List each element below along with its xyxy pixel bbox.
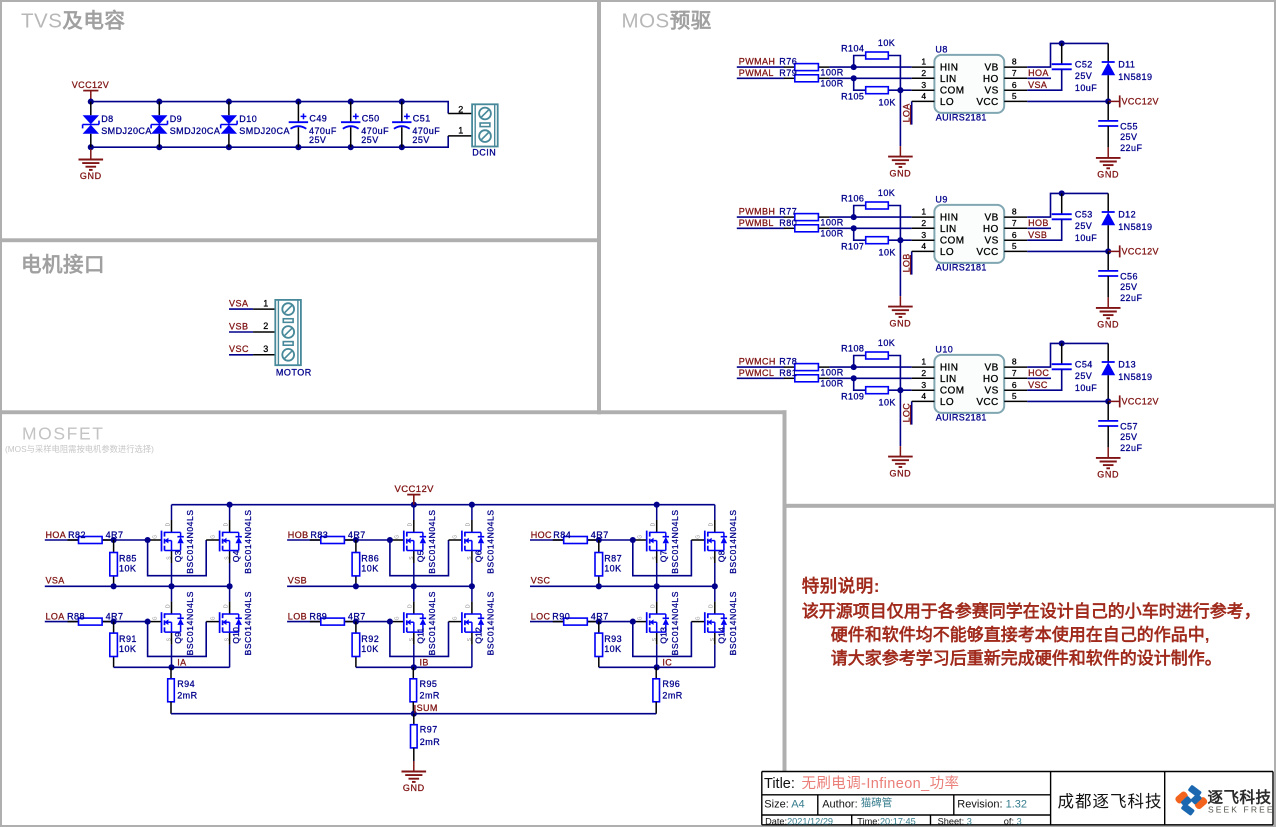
svg-text:HOC: HOC [1028,368,1049,378]
svg-text:10K: 10K [604,564,621,574]
svg-text:U8: U8 [935,45,947,55]
wire gate link high side [148,540,207,576]
wire VB to bootstrap [1027,343,1108,367]
svg-text:GND: GND [889,468,911,478]
resistor R81 100R [779,368,843,389]
svg-text:D: D [709,522,715,526]
svg-text:R96: R96 [662,679,680,689]
svg-text:8: 8 [1012,57,1017,67]
svg-text:10K: 10K [119,564,136,574]
wire bottom bus GND [91,136,448,147]
diode D12 1N5819 [1101,193,1152,251]
pin 8 VB [985,57,1028,74]
svg-text:Revision: 1.32: Revision: 1.32 [957,798,1027,810]
svg-text:R109: R109 [841,391,864,401]
resistor R78 100R [779,357,843,378]
section divider vertical between left column and MOS predriver box [597,2,601,414]
junction [88,99,94,105]
svg-text:GND: GND [1097,170,1119,180]
wire gate link low side [633,622,692,657]
svg-text:1N5819: 1N5819 [1118,222,1152,232]
svg-text:SMDJ20CA: SMDJ20CA [170,126,221,136]
svg-text:G: G [453,535,459,539]
svg-text:LOB: LOB [288,611,307,621]
svg-text:5: 5 [1012,91,1017,101]
wire IC rail [599,666,715,668]
wire COM to ground [899,390,901,446]
svg-text:COM: COM [940,236,965,247]
net label HOB [1027,218,1051,228]
svg-text:R105: R105 [841,91,864,101]
svg-text:2mR: 2mR [420,737,440,747]
net label LOC [901,403,911,425]
svg-text:Q6: Q6 [474,550,484,562]
svg-text:HIN: HIN [940,63,958,74]
svg-text:VCC: VCC [976,397,998,408]
resistor R83 4R7 [310,530,366,543]
section divider horizontal top of MOSFET box [2,410,787,414]
ground [1096,147,1121,179]
junction [1059,190,1065,196]
resistor R80 100R [779,218,843,239]
svg-text:2mR: 2mR [662,690,682,700]
pin 2 LIN [912,368,957,385]
pin 4 LO [912,241,954,258]
junction [145,619,151,625]
wire R104 pulldown [854,56,866,68]
power port VCC12V [395,484,435,505]
svg-text:D: D [466,522,472,526]
wire R109 pulldown [854,378,866,390]
wire IA rail [114,666,230,668]
diode D13 1N5819 [1101,343,1152,401]
svg-text:HOB: HOB [288,530,309,540]
transistor Q14 BSC014N04LS [696,586,739,667]
svg-text:GND: GND [889,318,911,328]
svg-text:R107: R107 [841,241,864,251]
power port VCC12V [1108,395,1159,407]
svg-text:GND: GND [403,783,425,793]
svg-text:HIN: HIN [940,363,958,374]
junction [111,583,117,589]
transistor Q7 BSC014N04LS [638,505,681,587]
pin 7 HO [983,68,1027,85]
svg-text:猫碑管: 猫碑管 [861,796,893,809]
wire to ground [1107,426,1109,447]
diode D11 1N5819 [1101,43,1152,101]
junction [353,583,359,589]
transistor Q9 BSC014N04LS [152,586,195,667]
ground [79,147,104,181]
junction [353,619,359,625]
svg-text:100R: 100R [820,79,843,89]
svg-text:25V: 25V [1120,132,1137,142]
svg-text:G: G [210,535,216,539]
svg-text:HOA: HOA [1028,68,1049,78]
junction [348,99,354,105]
wire LOB gate drive [287,621,390,623]
svg-text:VCC12V: VCC12V [1122,397,1159,407]
resistor R106 10K [841,188,895,209]
op-amp U8 AUIRS2181 gate driver [912,45,1028,123]
svg-text:G: G [395,535,401,539]
svg-text:10K: 10K [361,564,378,574]
svg-text:R84: R84 [553,530,571,540]
transistor Q12 BSC014N04LS [453,586,496,667]
seekfree logo [1174,785,1275,816]
svg-text:R89: R89 [309,611,327,621]
wire HOA gate drive [45,539,148,541]
junction [654,502,660,508]
svg-text:VSA: VSA [1028,80,1047,90]
svg-text:4: 4 [921,91,926,101]
junction [226,99,232,105]
ground [888,446,913,478]
pin 4 LO [912,91,954,108]
svg-text:COM: COM [940,386,965,397]
capacitor C51 470uF 25V [392,102,440,148]
svg-text:VSA: VSA [229,299,249,309]
wire LO to LOA [911,101,913,124]
resistor R104 10K [841,38,895,59]
svg-text:VCC12V: VCC12V [72,80,109,90]
svg-text:GND: GND [1097,320,1119,330]
wire top bus VCC12V [91,102,448,114]
net label LOA [901,103,911,124]
svg-text:10K: 10K [361,644,378,654]
svg-text:100R: 100R [820,379,843,389]
svg-text:BSC014N04LS: BSC014N04LS [728,509,738,573]
transistor Q5 BSC014N04LS [395,505,438,587]
svg-text:D: D [223,522,229,526]
ground [1096,447,1121,479]
svg-text:1: 1 [921,207,926,217]
junction [654,583,660,589]
resistor R82 4R7 [68,530,124,543]
svg-text:C50: C50 [362,114,380,124]
op-amp U9 AUIRS2181 gate driver [912,195,1028,273]
wire R106 pulldown [854,206,866,218]
svg-text:10K: 10K [879,398,896,408]
power port VCC12V [1108,245,1159,257]
junction [469,502,475,508]
date row [765,816,1022,826]
svg-text:Q9: Q9 [173,632,183,644]
svg-text:HO: HO [983,374,999,385]
svg-text:R104: R104 [841,44,864,54]
wire gate link low side [148,622,207,657]
svg-text:HOC: HOC [531,530,552,540]
capacitor C52 bootstrap [1052,43,1098,93]
svg-text:G: G [696,616,702,620]
svg-text:VS: VS [985,86,999,97]
svg-text:25V: 25V [1075,221,1092,231]
junction [387,537,393,543]
wire VCC12V top bus [172,504,715,506]
svg-text:HIN: HIN [940,213,958,224]
junction [712,583,718,589]
svg-text:COM: COM [940,86,965,97]
svg-text:HOA: HOA [46,530,67,540]
svg-text:1N5819: 1N5819 [1118,372,1152,382]
junction [168,583,174,589]
svg-text:R94: R94 [177,679,195,689]
junction [348,144,354,150]
wire VCC [1027,400,1108,402]
svg-text:PWMAH: PWMAH [739,57,776,67]
svg-text:LIN: LIN [940,374,957,385]
resistor R108 10K [841,338,895,359]
junction [411,711,417,717]
svg-text:R79: R79 [779,68,797,78]
junction [469,583,475,589]
svg-text:10uF: 10uF [1075,83,1097,93]
resistor R94 2mR shunt [168,667,198,713]
pin 6 VS [985,80,1028,97]
svg-text:IA: IA [177,658,186,668]
svg-text:LOA: LOA [46,611,65,621]
svg-text:VSB: VSB [229,321,249,331]
junction [145,537,151,543]
svg-text:Q14: Q14 [716,627,726,644]
svg-text:100R: 100R [820,68,843,78]
wire LO to LOC [911,401,913,424]
svg-text:PWMCH: PWMCH [739,357,776,367]
wire gate link high side [633,540,692,576]
svg-text:VCC: VCC [976,247,998,258]
resistor R90 4R7 [552,611,608,625]
svg-text:C56: C56 [1120,271,1138,281]
svg-text:电机接口: 电机接口 [21,253,105,277]
svg-text:VSC: VSC [531,575,551,585]
pin 8 VB [985,207,1028,224]
svg-text:R93: R93 [604,634,622,644]
pin 1 HIN [912,57,959,74]
junction [88,144,94,150]
svg-text:VB: VB [985,63,999,74]
svg-text:100R: 100R [820,229,843,239]
wire gate link low side [390,622,449,657]
svg-text:BSC014N04LS: BSC014N04LS [427,509,437,573]
capacitor C49 470uF 25V [289,102,337,148]
net label HOA [1027,68,1051,78]
svg-text:VS: VS [985,386,999,397]
svg-text:Q4: Q4 [231,550,241,562]
transistor Q3 BSC014N04LS [152,505,195,587]
resistor R96 2mR shunt [653,667,683,713]
junction [295,99,301,105]
connector MOTOR [275,300,311,378]
svg-text:10uF: 10uF [1075,383,1097,393]
capacitor C54 bootstrap [1052,343,1098,393]
wire PWMCL to LIN [737,377,785,379]
svg-text:PWMAL: PWMAL [739,68,774,78]
net label LOB [901,253,911,274]
svg-text:R87: R87 [604,554,622,564]
junction [111,619,117,625]
svg-text:PWMBL: PWMBL [739,218,774,228]
svg-text:2: 2 [921,218,926,228]
svg-text:IC: IC [662,658,672,668]
wire PWMAL to LIN [737,77,785,79]
svg-text:25V: 25V [412,135,429,145]
svg-text:Date:2021/12/29: Date:2021/12/29 [765,816,833,826]
junction [226,144,232,150]
svg-text:22uF: 22uF [1120,293,1142,303]
resistor R92 10K pulldown [352,622,379,668]
pin 7 HO [983,218,1027,235]
wire pin 2 to DCIN [448,113,472,115]
junction [1059,40,1065,46]
svg-text:VS: VS [985,236,999,247]
svg-text:5: 5 [1012,241,1017,251]
wire VB to bootstrap [1027,193,1108,217]
svg-text:VCC12V: VCC12V [1122,247,1159,257]
pin 1 HIN [912,207,959,224]
svg-text:D9: D9 [170,114,182,124]
svg-text:VB: VB [985,213,999,224]
junction [411,583,417,589]
svg-text:LIN: LIN [940,224,957,235]
resistor R76 100R [779,57,843,78]
svg-text:2: 2 [263,321,268,331]
resistor R97 2mR [411,714,441,761]
svg-text:G: G [395,616,401,620]
junction [851,375,857,381]
svg-text:G: G [638,616,644,620]
svg-text:U9: U9 [935,195,947,205]
svg-text:特别说明:: 特别说明: [802,576,880,596]
svg-text:LIN: LIN [940,74,957,85]
svg-text:C55: C55 [1120,121,1138,131]
wire HOC gate drive [530,539,633,541]
svg-text:LO: LO [940,397,954,408]
svg-text:Title:: Title: [764,776,795,792]
wire VSA rail [45,585,230,587]
svg-text:D11: D11 [1118,60,1135,70]
svg-text:VSB: VSB [288,575,307,585]
wire PWMBH to HIN [737,216,785,218]
svg-text:R97: R97 [420,724,438,734]
svg-text:25V: 25V [1120,432,1137,442]
transistor Q4 BSC014N04LS [210,505,253,587]
wire IB rail [356,666,472,668]
svg-text:R80: R80 [779,218,797,228]
pin 6 VS [985,230,1028,247]
svg-text:VCC: VCC [976,97,998,108]
svg-text:LOB: LOB [901,253,911,272]
svg-text:SEEK FREE: SEEK FREE [1208,805,1275,815]
svg-text:R81: R81 [779,368,797,378]
svg-text:Author:: Author: [822,798,857,810]
capacitor C53 bootstrap [1052,193,1098,243]
svg-text:C52: C52 [1075,60,1093,70]
svg-text:G: G [152,535,158,539]
ground [888,296,913,328]
svg-text:LO: LO [940,97,954,108]
TVS diode D8 SMDJ20CA [83,102,152,148]
junction [168,664,174,670]
wire VSA net [1027,69,1061,90]
svg-text:10K: 10K [878,338,895,348]
svg-text:VSA: VSA [46,575,65,585]
svg-text:请大家参考学习后重新完成硬件和软件的设计制作。: 请大家参考学习后重新完成硬件和软件的设计制作。 [831,648,1222,668]
svg-text:2: 2 [458,104,463,114]
svg-text:R86: R86 [361,554,379,564]
svg-text:25V: 25V [361,135,378,145]
svg-text:D8: D8 [101,114,113,124]
svg-text:MOSFET: MOSFET [22,424,105,444]
svg-text:BSC014N04LS: BSC014N04LS [728,591,738,655]
svg-text:R90: R90 [552,611,570,621]
op-amp U10 AUIRS2181 gate driver [912,345,1028,423]
svg-text:G: G [210,616,216,620]
svg-text:D: D [651,522,657,526]
svg-text:25V: 25V [1075,371,1092,381]
svg-text:R83: R83 [310,530,328,540]
svg-text:10K: 10K [878,188,895,198]
wire R105 pulldown [854,78,866,90]
svg-text:G: G [453,616,459,620]
svg-text:100R: 100R [820,368,843,378]
ground [888,146,913,178]
svg-text:D13: D13 [1118,360,1136,370]
svg-text:BSC014N04LS: BSC014N04LS [670,591,680,655]
pin 3 COM [912,380,965,397]
junction [353,537,359,543]
junction [387,619,393,625]
junction [399,99,405,105]
connector DCIN [472,104,498,157]
junction [851,225,857,231]
svg-text:2mR: 2mR [177,690,197,700]
svg-text:VCC12V: VCC12V [395,484,435,495]
resistor R77 100R [779,207,843,228]
svg-text:(MOS与采样电阻需按电机参数进行选择): (MOS与采样电阻需按电机参数进行选择) [5,444,154,454]
svg-text:R88: R88 [67,611,85,621]
svg-text:3: 3 [921,380,926,390]
svg-text:D: D [408,522,414,526]
svg-text:100R: 100R [820,218,843,228]
junction [1105,248,1111,254]
junction [851,75,857,81]
svg-text:D: D [408,604,414,608]
svg-text:硬件和软件均不能够直接考本使用在自己的作品中,: 硬件和软件均不能够直接考本使用在自己的作品中, [831,625,1210,645]
wire LOA gate drive [45,621,148,623]
junction [227,502,233,508]
resistor R89 4R7 [309,611,365,625]
wire VB to bootstrap [1027,43,1108,67]
power port VCC12V [1108,95,1159,107]
svg-text:BSC014N04LS: BSC014N04LS [485,509,495,573]
svg-text:1: 1 [921,57,926,67]
svg-text:G: G [638,535,644,539]
junction [1105,98,1111,104]
svg-text:AUIRS2181: AUIRS2181 [936,112,987,122]
svg-text:10K: 10K [119,644,136,654]
resistor R84 4R7 [553,530,609,543]
svg-text:25V: 25V [309,135,326,145]
svg-text:HOB: HOB [1028,218,1049,228]
svg-text:6: 6 [1012,80,1017,90]
wire VSA to motor pin 1 [229,308,253,310]
section divider vertical right of MOSFET box [783,410,787,771]
wire to ground [1107,276,1109,297]
junction [1059,340,1065,346]
junction [851,364,857,370]
svg-text:2mR: 2mR [420,690,440,700]
transistor Q11 BSC014N04LS [395,586,438,667]
